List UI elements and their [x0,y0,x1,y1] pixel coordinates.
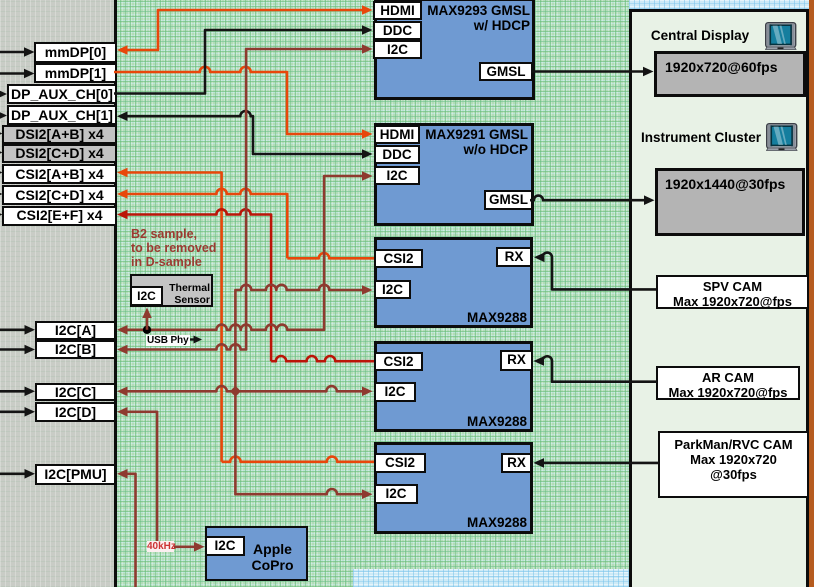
pin I2C (MAX9293) [373,40,422,59]
SoC port box I2C[D] [35,402,116,422]
wire GMSL MAX9293 to Central Display [531,70,644,73]
SoC port box CSI2[C+D] x4 [2,185,117,205]
icon monitor (Instrument Cluster) [766,123,798,151]
wire CSI2[E+F] to CSI2 MAX9288#2 (red) [126,209,271,361]
pin I2C (MAX9288 #1) [374,280,411,299]
SoC port box CSI2[E+F] x4 [2,206,117,226]
pin CSI2 (MAX9288 #2) [374,352,423,371]
block MAX9288 deserializer 3 [374,442,533,534]
SoC port box CSI2[A+B] x4 [2,164,117,184]
pin DDC (MAX9293) [373,21,422,40]
wire DP_AUX_CH[1] to DDC MAX9291 [126,111,363,154]
pin GMSL (MAX9293) [479,62,533,81]
wire SoC input to CSI2[E+F] [0,210,3,220]
wire I2C[B] to I2C MAX9293 (maroon) [126,49,363,350]
wire I2C[A] bus to I2C MAX9291 (maroon) [126,176,363,330]
block MAX9291 GMSL serializer [374,123,534,226]
wire SoC input to mmDP[1] [0,72,25,75]
wire CSI2[C+D] to CSI2 MAX9288#1 (orange) [126,189,287,258]
pin DDC (MAX9291) [374,145,420,164]
block Apple CoPro [205,526,308,581]
camera box ParkMan/RVC CAM [658,431,809,498]
wire SoC input to mmDP[0] [0,51,25,54]
pin HDMI (MAX9291) [374,125,420,144]
pin I2C (MAX9288 #2) [374,382,416,402]
wire ParkMan/RVC CAM to RX MAX9288#3 [542,462,659,465]
block Thermal Sensor [130,274,213,307]
SoC port box DP_AUX_CH[1] [7,105,117,125]
orange page edge strip [809,0,814,587]
wire SPV CAM to RX MAX9288#1 [543,253,657,290]
white page edge strip [814,0,820,587]
icon monitor (Central Display) [765,22,797,50]
wire SoC input to DP_AUX_CH[0] [0,89,7,99]
camera box AR CAM [656,366,800,400]
SoC port box I2C[A] [35,321,116,340]
wire mmDP[1] to HDMI MAX9291 (orange) [114,67,363,134]
arrow USB Phy annotation [187,338,194,340]
SoC port box I2C[B] [35,340,116,359]
display box 1920x720@60fps [654,51,806,97]
wire SoC input to DSI2[C+D] [0,148,3,158]
wire CSI2[A+B] to CSI2 MAX9288#3 (orange) [126,173,222,462]
block MAX9288 deserializer 2 [374,341,533,432]
wire GMSL MAX9291 to Instrument Cluster [530,196,645,201]
SoC port box I2C[PMU] [35,464,116,485]
SoC port box mmDP[0] [34,42,117,63]
pin CSI2 (MAX9288 #3) [374,453,426,473]
wire SoC input to I2C[D] [0,410,26,413]
wire AR CAM to RX MAX9288#2 [543,356,658,381]
wire I2C[A] branch to Thermal Sensor [146,313,149,330]
junction diamond on I2C[C] bus [230,386,241,397]
label USB Phy [146,335,190,346]
pin GMSL (MAX9291) [484,190,533,210]
camera box SPV CAM [656,275,809,309]
SoC port box DSI2[A+B] x4 [2,125,117,144]
pin RX (MAX9288 #2) [500,350,533,371]
pin RX (MAX9288 #1) [496,247,532,267]
label Central Display [640,28,760,43]
SoC port box I2C[C] [35,383,116,401]
wire SoC input to DSI2[A+B] [0,129,3,139]
SoC port box mmDP[1] [34,63,117,83]
pin I2C (Thermal Sensor) [130,286,163,306]
pin CSI2 (MAX9288 #1) [374,249,423,268]
pin I2C (MAX9291) [374,166,420,185]
label 40kHz [147,541,174,552]
cyan page background top-right [629,0,809,9]
SoC port box DP_AUX_CH[0] [7,84,117,104]
pin I2C (MAX9288 #3) [374,484,418,504]
note B2 sample [131,228,231,269]
wire SoC input to I2C[PMU] [0,472,26,475]
wire SoC input to CSI2[A+B] [0,168,3,178]
wire I2C[C] branch to I2C MAX9288#3 (maroon) [235,391,363,494]
block MAX9288 deserializer 1 [374,237,533,328]
wire SoC input to DP_AUX_CH[1] [0,111,7,121]
junction dot on I2C[A] bus [143,326,151,334]
pin I2C (Apple CoPro) [205,536,245,556]
SoC port box DSI2[C+D] x4 [2,144,117,163]
SoC grey band (left, cropped) [0,0,117,587]
wire SoC input to I2C[A] [0,328,26,331]
wire mmDP[0] to HDMI MAX9293 (orange) [126,10,363,50]
pin RX (MAX9288 #3) [501,453,532,473]
wire I2C[C] branch to I2C MAX9288#1 (maroon) [235,285,363,392]
wire I2C[PMU] to off-page (maroon) [126,474,136,587]
wire SoC input to I2C[C] [0,390,26,393]
wire I2C[C] to I2C MAX9288#2 (maroon) [126,386,363,391]
label Instrument Cluster [636,130,766,145]
wire SoC input to CSI2[C+D] [0,189,3,199]
wire I2C[D] to Apple CoPro I2C (40kHz, maroon) [126,412,196,547]
wire SoC input to I2C[B] [0,348,26,351]
display box 1920x1440@30fps [655,168,805,236]
block MAX9293 GMSL serializer [374,0,535,100]
wire DP_AUX_CH[0] to DDC MAX9293 [114,30,363,94]
pin HDMI (MAX9293) [373,1,422,20]
right panel (displays & cameras) [629,9,809,587]
cyan page background bottom notch [353,569,629,587]
